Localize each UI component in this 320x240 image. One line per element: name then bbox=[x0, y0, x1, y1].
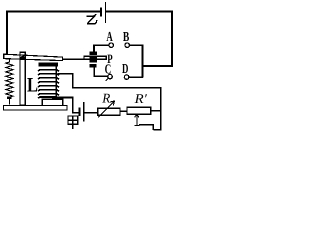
wire down to battery 甲 bbox=[72, 97, 74, 114]
wire stub right to BD node bbox=[142, 65, 173, 67]
svg-text:P: P bbox=[107, 52, 113, 66]
pivot post bbox=[20, 52, 25, 105]
armature bar over coil (tilted hollow) bbox=[4, 54, 63, 60]
wire from D circle bbox=[129, 76, 144, 78]
terminal circle D bbox=[124, 75, 129, 80]
wire into battery 甲 bbox=[72, 112, 78, 114]
R' wiper arrow bbox=[134, 114, 139, 125]
spring bbox=[6, 59, 13, 104]
jog wire to wiper bbox=[139, 125, 162, 130]
R rheostat diagonal arrow bbox=[98, 101, 115, 118]
wire to C circle bbox=[93, 76, 108, 78]
resistor R' box bbox=[127, 107, 151, 114]
rod armature to P bbox=[63, 59, 85, 61]
P moving contact block bbox=[90, 56, 97, 62]
resistor R box bbox=[98, 108, 120, 115]
wire leg A to top contact bbox=[93, 45, 95, 52]
battery 甲 positive plate (long thin) bbox=[83, 102, 84, 122]
wire from B circle bbox=[129, 44, 144, 46]
electromagnet pole piece bbox=[38, 62, 58, 66]
pivot dot bbox=[21, 56, 25, 60]
wire R' to right vertical bbox=[151, 110, 161, 112]
terminal circle C bbox=[108, 74, 113, 79]
battery 乙 positive plate (long thin) bbox=[105, 2, 106, 23]
wire leg bottom contact to C bbox=[93, 67, 95, 75]
battery 乙 negative plate (short thick) bbox=[100, 7, 102, 16]
wire top right horizontal bbox=[106, 11, 173, 13]
wire BD vertical bbox=[142, 44, 144, 77]
coil lead upper to node bbox=[58, 73, 72, 75]
wire top left horizontal bbox=[6, 11, 100, 13]
top fixed contact square bbox=[90, 51, 97, 55]
svg-text:R: R bbox=[101, 91, 110, 106]
long wire y88 to right bbox=[72, 87, 162, 89]
svg-text:A: A bbox=[106, 29, 112, 44]
svg-text:D: D bbox=[122, 61, 128, 76]
wire left vertical bbox=[6, 11, 8, 58]
right control vertical bbox=[160, 87, 162, 130]
wire R to R' bbox=[120, 111, 127, 113]
spring bottom knot bbox=[7, 96, 12, 99]
svg-text:L: L bbox=[27, 74, 38, 96]
label 甲 bbox=[68, 116, 78, 129]
armature bar P (hollow) bbox=[84, 56, 106, 59]
base plate bbox=[3, 105, 67, 110]
coil L winding bbox=[38, 67, 59, 99]
terminal circle B bbox=[125, 43, 130, 48]
wire from A circle bbox=[93, 45, 109, 47]
C circle tail tick bbox=[106, 78, 109, 81]
svg-text:R′: R′ bbox=[134, 91, 148, 106]
coil pedestal bbox=[42, 99, 63, 105]
coil lead lower bbox=[52, 97, 74, 99]
svg-text:B: B bbox=[123, 29, 129, 44]
label 乙 bbox=[87, 15, 96, 24]
terminal circle A bbox=[109, 43, 114, 48]
battery 甲 negative plate (short thick) bbox=[78, 108, 80, 116]
wire right vertical bbox=[171, 11, 173, 67]
wire node vertical to y88 bbox=[72, 73, 74, 88]
wire battery to R bbox=[85, 112, 98, 114]
bottom fixed contact square bbox=[90, 64, 97, 67]
